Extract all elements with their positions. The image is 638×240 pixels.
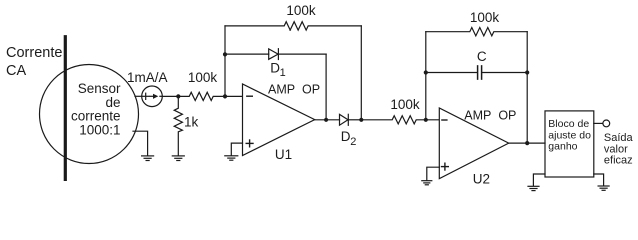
- svg-text:U1: U1: [275, 147, 292, 162]
- svg-text:C: C: [477, 49, 487, 64]
- node B junction dot (inverting input U1): [223, 94, 227, 98]
- ground (block left pin): [533, 174, 545, 186]
- svg-text:Corrente: Corrente: [6, 45, 62, 61]
- svg-text:100k: 100k: [390, 97, 420, 112]
- wire U2 non-inverting input to ground: [427, 167, 440, 180]
- capacitor C: [426, 72, 477, 74]
- svg-text:AMP OP: AMP OP: [464, 108, 516, 122]
- svg-text:ganho: ganho: [548, 141, 577, 153]
- node I junction dot (U2 output): [525, 141, 529, 145]
- wire feedback left rail U2: [425, 32, 427, 120]
- node H junction dot (C right): [525, 70, 529, 74]
- resistor R4 100k (between stages): [361, 116, 439, 124]
- svg-text:U2: U2: [473, 171, 490, 186]
- wire sensor to current source: [135, 95, 142, 97]
- svg-text:100k: 100k: [470, 10, 500, 25]
- wire feedback right rail U2: [526, 32, 528, 143]
- svg-text:2: 2: [350, 136, 356, 148]
- terminal output (Saída valor eficaz): [603, 120, 610, 127]
- ground (block right pin): [594, 174, 604, 186]
- wire U1 output: [315, 119, 340, 121]
- op-amp U2: [439, 108, 508, 179]
- node A junction dot: [176, 94, 180, 98]
- wire current source to node A: [162, 95, 178, 97]
- diode D1: [225, 53, 269, 55]
- node E junction dot (post D2): [359, 118, 363, 122]
- ground (U1 +): [225, 155, 238, 157]
- ground (1k resistor): [172, 155, 184, 157]
- svg-text:valor: valor: [604, 143, 628, 155]
- svg-text:Saída: Saída: [604, 132, 634, 144]
- svg-text:1: 1: [280, 67, 286, 79]
- node D junction dot (U1 output): [324, 118, 328, 122]
- svg-text:Bloco de: Bloco de: [548, 118, 589, 130]
- svg-text:100k: 100k: [286, 3, 316, 18]
- wire U2 output to block: [509, 142, 545, 144]
- resistor R1 100k (input): [178, 92, 225, 100]
- block gain adjust (Bloco de ajuste do ganho): [545, 111, 594, 177]
- resistor R5 100k (U2 feedback, top): [426, 28, 527, 36]
- wire D1 right rail down to U1 output: [325, 54, 327, 120]
- wire primary conductor (thick CA line): [64, 37, 67, 180]
- svg-text:1k: 1k: [184, 114, 199, 129]
- op-amp U1: [243, 84, 315, 156]
- wire feedback left rail U1: [224, 26, 226, 97]
- svg-text:ajuste do: ajuste do: [548, 129, 591, 141]
- node G junction dot (C left): [424, 70, 428, 74]
- ground (sensor): [133, 131, 148, 155]
- resistor R2 1k (to ground): [174, 96, 182, 155]
- svg-text:1000:1: 1000:1: [79, 122, 120, 137]
- wire U1 non-inverting input to ground: [231, 143, 242, 155]
- node C junction dot (D1 tap): [223, 52, 227, 56]
- diode D2: [340, 114, 349, 125]
- wire feedback right rail (100k): [360, 26, 362, 120]
- wire node B to U1 inverting input: [225, 95, 243, 97]
- resistor R3 100k (U1 feedback, top): [225, 22, 361, 30]
- svg-text:1mA/A: 1mA/A: [127, 70, 168, 85]
- svg-text:eficaz: eficaz: [604, 155, 633, 167]
- svg-text:CA: CA: [6, 63, 26, 79]
- svg-text:D: D: [341, 129, 351, 144]
- node F junction dot (inverting input U2): [424, 118, 428, 122]
- sensor T1 circle (Sensor de corrente 1000:1): [40, 65, 139, 164]
- svg-text:AMP OP: AMP OP: [268, 83, 320, 97]
- svg-text:100k: 100k: [188, 70, 218, 85]
- wire block output: [594, 122, 603, 124]
- node Corrente CA label: [6, 45, 62, 79]
- current source 1mA/A: [142, 86, 163, 107]
- ground (U2 +): [422, 180, 432, 182]
